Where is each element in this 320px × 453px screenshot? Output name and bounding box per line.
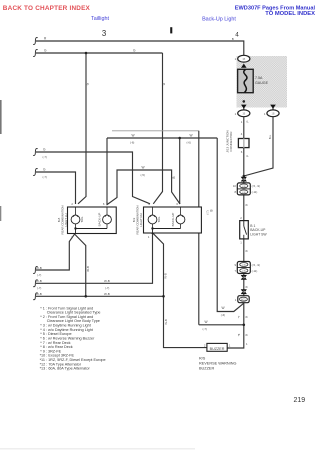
svg-text:1: 1 [235,112,237,116]
svg-text:CONNECTOR: CONNECTOR [229,131,233,152]
arrow up into fuse [241,64,247,68]
svg-text:L/B: L/B [242,271,246,273]
svg-text:L/B: L/B [242,186,246,188]
junction dot diagonal merge [243,175,246,178]
svg-text:*7: *7 [237,315,241,318]
svg-text:W-B: W-B [104,279,110,283]
svg-text:B: B [232,37,234,41]
junction dot wire B [85,52,88,55]
wire W lower horizontal 2 to main column [199,324,244,326]
wire W right drop to lower horizontal 1 [217,138,243,312]
scan edge smudge [0,100,2,134]
wire branch to right oval [244,101,273,110]
svg-text:(-5): (-5) [141,173,145,177]
wire W-B LH diagonal ground [75,234,86,296]
svg-text:B: B [210,209,214,211]
wire W drop to LH back-up pin [106,138,108,204]
svg-text:W-B: W-B [86,266,90,272]
svg-text:B: B [244,204,248,206]
buzzer caption R/S REVERSE WARNING BUZZER [199,356,236,370]
svg-text:B: B [244,250,248,252]
svg-text:W: W [132,133,135,137]
svg-text:1: 1 [235,57,237,61]
svg-text:W-B: W-B [36,279,42,283]
svg-text:(-11): (-11) [252,190,258,194]
G stub 1 break symbol [33,149,38,156]
svg-text:1B: 1B [242,58,245,61]
buzzer box [204,343,231,351]
svg-text:G: G [44,49,47,53]
wire W variant link LH pin6 to RH pin6 [107,170,181,205]
wire main column fuse to junction connector [243,62,245,110]
svg-text:W-B: W-B [104,292,110,296]
wire W-B stub 4 to RH ground pin [36,233,153,283]
svg-text:W: W [190,133,193,137]
svg-text:LIGHT LH: LIGHT LH [64,214,68,227]
svg-text:G: G [43,148,46,152]
svg-text:(-5, -9): (-5, -9) [252,184,260,188]
svg-text:(-6): (-6) [187,141,191,145]
svg-text:2: 2 [204,344,206,348]
bulb BACK-UP RH [176,215,185,224]
inner ground link RH [153,229,181,234]
wire W drop to RH back-up pin [179,138,181,204]
svg-text:(-7): (-7) [203,327,207,331]
wire main column below ovals [243,117,245,183]
stacked connector SC2 [234,262,260,274]
svg-text:1: 1 [229,344,231,348]
svg-text:W: W [222,306,225,310]
bowtie connector arrows below SC2 [241,275,247,280]
scan bottom faint line [0,447,195,450]
svg-text:G: G [43,168,46,172]
svg-text:(-7): (-7) [205,210,209,214]
junction dot horizontal2 [243,324,246,327]
stacked connector SC1 [233,183,260,195]
svg-text:(-6): (-6) [130,141,134,145]
svg-text:1B: 1B [272,113,275,116]
svg-text:B: B [244,316,248,318]
W-B stub 5 break symbol [33,293,38,300]
svg-text:BUZZER: BUZZER [210,347,225,351]
W-B stub 3 break symbol [33,267,38,274]
svg-text:1: 1 [240,241,242,245]
svg-text:W: W [205,320,208,324]
svg-text:1: 1 [264,112,266,116]
wire SC1 to back-up light switch [243,195,245,221]
svg-text:B-L: B-L [268,134,272,139]
svg-text:*13 : 60A, 80A Type Alternator: *13 : 60A, 80A Type Alternator [40,367,91,371]
svg-text:6: 6 [176,202,178,206]
wire W-B stub 5 [36,295,164,297]
svg-text:1: 1 [241,120,243,124]
junction connector J/13 [225,130,249,152]
svg-text:7.5A: 7.5A [255,76,263,80]
wire B second rail [36,52,163,54]
junction dot W feed [178,137,181,140]
wire A top rail to fuse [36,41,244,56]
svg-text:R: R [44,37,47,41]
svg-text:2: 2 [148,202,150,206]
bulb TAIL RH [148,215,157,224]
svg-text:W-B: W-B [36,292,42,296]
footnote legend [40,306,106,370]
svg-text:B: B [244,286,248,288]
bulb TAIL LH [71,215,80,224]
svg-text:G: G [133,49,136,53]
svg-text:9: 9 [234,263,236,267]
junction dot below fuse [243,100,246,103]
svg-text:REVERSE WARNING: REVERSE WARNING [199,361,236,365]
svg-text:(-11): (-11) [252,269,258,273]
fuse block halftone region [237,56,288,108]
svg-text:3: 3 [102,29,106,38]
svg-text:(-7): (-7) [105,286,109,290]
bulb BACK-UP LH [103,215,112,224]
svg-text:W-B: W-B [164,319,168,325]
fuse 7.5A GAUGE [238,69,269,92]
svg-text:P: P [245,120,249,122]
svg-text:Back-Up Light: Back-Up Light [202,16,236,22]
svg-text:R/S: R/S [199,356,206,360]
svg-text:1: 1 [246,342,248,346]
junction dot LH ground on stub5 [84,295,87,298]
svg-text:BACK TO CHAPTER INDEX: BACK TO CHAPTER INDEX [3,5,91,12]
connector BC1 [235,296,249,303]
junction dot RH pin1 [151,232,154,235]
svg-text:BACK-UP: BACK-UP [97,213,101,227]
svg-text:B: B [244,334,248,336]
svg-text:(-6): (-6) [221,313,225,317]
back-up light switch B-1 [240,221,268,239]
wire SC2 to BC1 [243,274,245,296]
svg-text:P: P [245,155,249,157]
svg-text:W: W [142,165,145,169]
svg-text:LIGHT SW: LIGHT SW [250,232,267,236]
power rail divider bar [170,27,172,33]
svg-text:TAIL: TAIL [157,216,161,223]
svg-text:GAUGE: GAUGE [255,81,269,85]
svg-text:2: 2 [71,202,73,206]
wire vertical G from wire B junction to LH tail pin [78,53,86,204]
W-B stub 4 break symbol [33,280,38,287]
svg-text:6: 6 [241,150,243,154]
wire G stub 2 [36,172,76,204]
G stub 2 break symbol [33,169,38,176]
wire right branch diagonal merge [244,117,273,176]
svg-text:BUZZER: BUZZER [199,366,214,370]
wire BC1 to buzzer corner [227,303,244,348]
svg-text:Taillight: Taillight [91,16,109,22]
wire G stub 1 [36,152,150,204]
bowtie connector arrows above BC1 [241,289,247,294]
svg-text:(-7): (-7) [43,155,47,159]
wire colour labels [36,37,234,332]
wire switch to SC2 [243,239,245,262]
wire A break symbol [33,38,38,45]
wire W-B stub 3 [36,234,75,270]
svg-text:(-5, -9): (-5, -9) [252,263,260,267]
wire W-B RH diagonal ground to buzzer [153,233,207,348]
bowtie connector arrows above SC1 [241,177,247,182]
svg-text:BACK-UP: BACK-UP [171,213,175,227]
arrow down into oval O2 [241,105,247,109]
svg-text:L/B: L/B [242,265,246,267]
wire vertical from wire B corner to RH tail pin [153,53,162,204]
svg-text:W-B: W-B [164,273,168,279]
svg-text:(-7): (-7) [37,286,41,290]
svg-text:L/B: L/B [242,192,246,194]
svg-text:*8: *8 [237,333,241,336]
wire B break symbol [33,50,38,57]
wire W faint upper variant [112,130,199,132]
svg-text:10: 10 [233,184,237,188]
junction dot RH ground on stub5 [162,295,165,298]
svg-text:BC1: BC1 [241,299,246,301]
inner ground link LH [76,229,108,234]
svg-text:6: 6 [103,202,105,206]
rear combination light RH box [132,202,202,239]
svg-text:TAIL: TAIL [80,216,84,223]
svg-text:(-7): (-7) [37,273,41,277]
svg-text:W-B: W-B [36,266,42,270]
rear combination light LH box [57,202,116,240]
svg-text:TO MODEL INDEX: TO MODEL INDEX [265,11,315,17]
connector oval O1 above fuse [235,55,250,62]
svg-text:219: 219 [294,397,306,404]
svg-text:2: 2 [240,216,242,220]
svg-text:1: 1 [148,235,150,239]
svg-text:1B: 1B [242,113,245,116]
wire W drop from upper variant to horizontal 2 [198,131,200,325]
svg-text:7: 7 [234,269,236,273]
svg-text:(-7): (-7) [43,175,47,179]
wire W back-up feed horizontal [107,137,217,139]
svg-text:8: 8 [234,190,236,194]
svg-text:B: B [172,176,176,178]
svg-text:4: 4 [235,32,239,39]
svg-text:LIGHT RH: LIGHT RH [139,213,143,226]
arrow down into oval O3 [270,105,276,109]
svg-text:1: 1 [235,298,237,302]
svg-text:4: 4 [241,132,243,136]
connector oval O2 [235,110,250,117]
connector oval O3 [264,110,279,117]
